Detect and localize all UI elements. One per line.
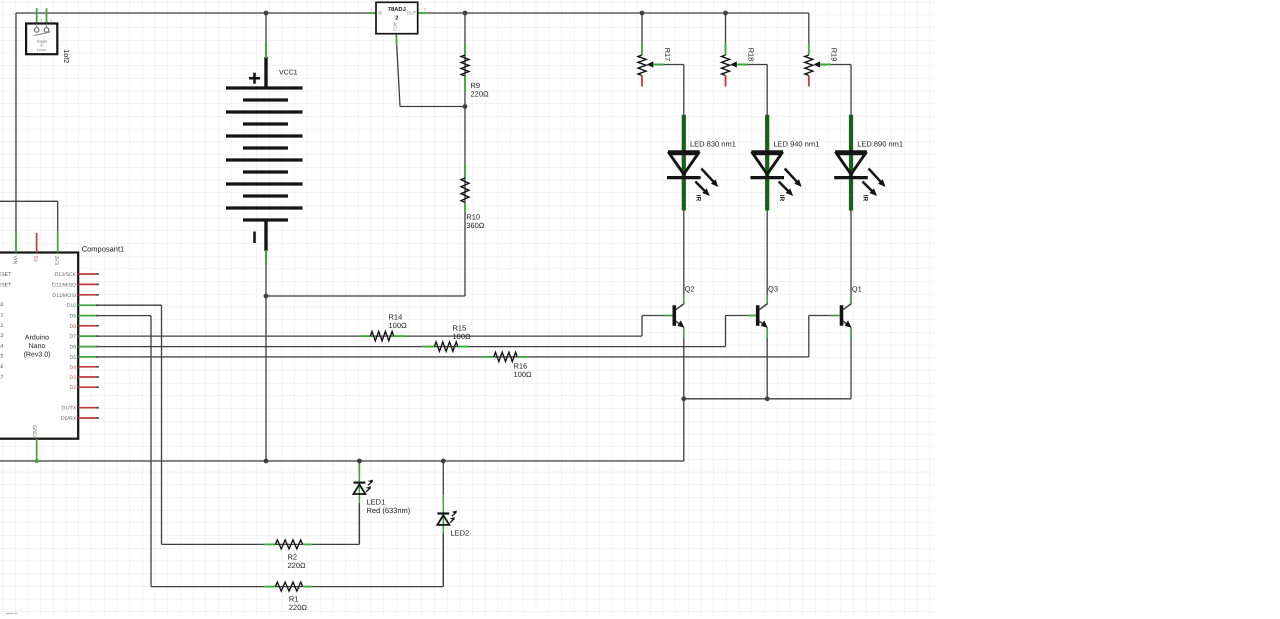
svg-text:220Ω: 220Ω (288, 561, 307, 570)
svg-text:Arduino: Arduino (25, 334, 49, 342)
svg-text:2: 2 (40, 18, 42, 22)
svg-text:Q1: Q1 (852, 285, 862, 294)
svg-text:(Rev3.0): (Rev3.0) (24, 351, 51, 359)
svg-text:OUT: OUT (407, 10, 417, 15)
svg-text:A3: A3 (0, 333, 3, 339)
svg-text:RESET: RESET (0, 283, 12, 289)
svg-text:IR: IR (694, 195, 701, 202)
svg-text:Red (633nm): Red (633nm) (367, 506, 411, 515)
svg-text:Q2: Q2 (685, 285, 695, 294)
svg-text:Lever: Lever (37, 48, 47, 52)
svg-text:100Ω: 100Ω (389, 321, 408, 330)
svg-text:D2: D2 (70, 385, 77, 391)
svg-text:1: 1 (50, 18, 52, 22)
svg-text:A1: A1 (0, 313, 3, 319)
svg-text:1of2: 1of2 (62, 49, 71, 63)
svg-text:RESET: RESET (0, 272, 12, 278)
svg-text:A0: A0 (0, 302, 3, 308)
svg-text:D8: D8 (70, 324, 77, 330)
svg-text:D0/RX: D0/RX (61, 416, 77, 422)
svg-text:2: 2 (395, 14, 398, 21)
svg-text:3V3: 3V3 (53, 256, 59, 265)
svg-text:ADJ: ADJ (393, 22, 398, 31)
svg-text:LED2: LED2 (450, 529, 469, 538)
svg-text:Q3: Q3 (768, 285, 778, 294)
svg-text:A4: A4 (0, 343, 3, 349)
svg-text:IR: IR (862, 195, 869, 202)
svg-text:LED 940 nm1: LED 940 nm1 (773, 140, 819, 149)
svg-text:100Ω: 100Ω (453, 332, 472, 341)
svg-text:D13/SCK: D13/SCK (55, 272, 77, 278)
svg-text:3: 3 (424, 8, 426, 12)
svg-text:R17: R17 (663, 48, 672, 62)
svg-text:100Ω: 100Ω (514, 370, 533, 379)
svg-text:A2: A2 (0, 323, 3, 329)
svg-text:IN: IN (378, 10, 383, 15)
svg-text:VIN: VIN (12, 256, 18, 265)
svg-text:A6: A6 (0, 364, 3, 370)
svg-text:D4: D4 (70, 365, 77, 371)
svg-text:Composant1: Composant1 (82, 244, 125, 253)
svg-text:A7: A7 (0, 374, 3, 380)
svg-text:A5: A5 (0, 354, 3, 360)
svg-text:IR: IR (778, 195, 785, 202)
svg-text:360Ω: 360Ω (466, 221, 485, 230)
svg-text:VCC1: VCC1 (279, 70, 298, 77)
svg-text:D9: D9 (70, 314, 77, 320)
svg-text:5V: 5V (32, 256, 38, 263)
svg-text:LED 890 nm1: LED 890 nm1 (857, 140, 903, 149)
svg-text:D10: D10 (67, 303, 77, 309)
svg-text:220Ω: 220Ω (289, 603, 308, 612)
svg-text:R18: R18 (746, 48, 755, 62)
svg-text:D1/TX: D1/TX (61, 406, 76, 412)
svg-text:LED 830 nm1: LED 830 nm1 (690, 140, 736, 149)
svg-text:78ADJ: 78ADJ (388, 6, 406, 13)
svg-text:D5: D5 (70, 355, 77, 361)
svg-text:D11/MOSI: D11/MOSI (52, 293, 76, 299)
svg-text:D7: D7 (70, 334, 77, 340)
svg-text:R19: R19 (830, 48, 839, 62)
svg-text:1: 1 (370, 8, 372, 12)
svg-text:GND: GND (31, 425, 37, 437)
svg-text:220Ω: 220Ω (471, 90, 490, 99)
svg-text:D6: D6 (70, 345, 77, 351)
svg-text:D12/MISO: D12/MISO (52, 282, 76, 288)
svg-text:Nano: Nano (29, 343, 46, 350)
svg-text:D3: D3 (70, 375, 77, 381)
